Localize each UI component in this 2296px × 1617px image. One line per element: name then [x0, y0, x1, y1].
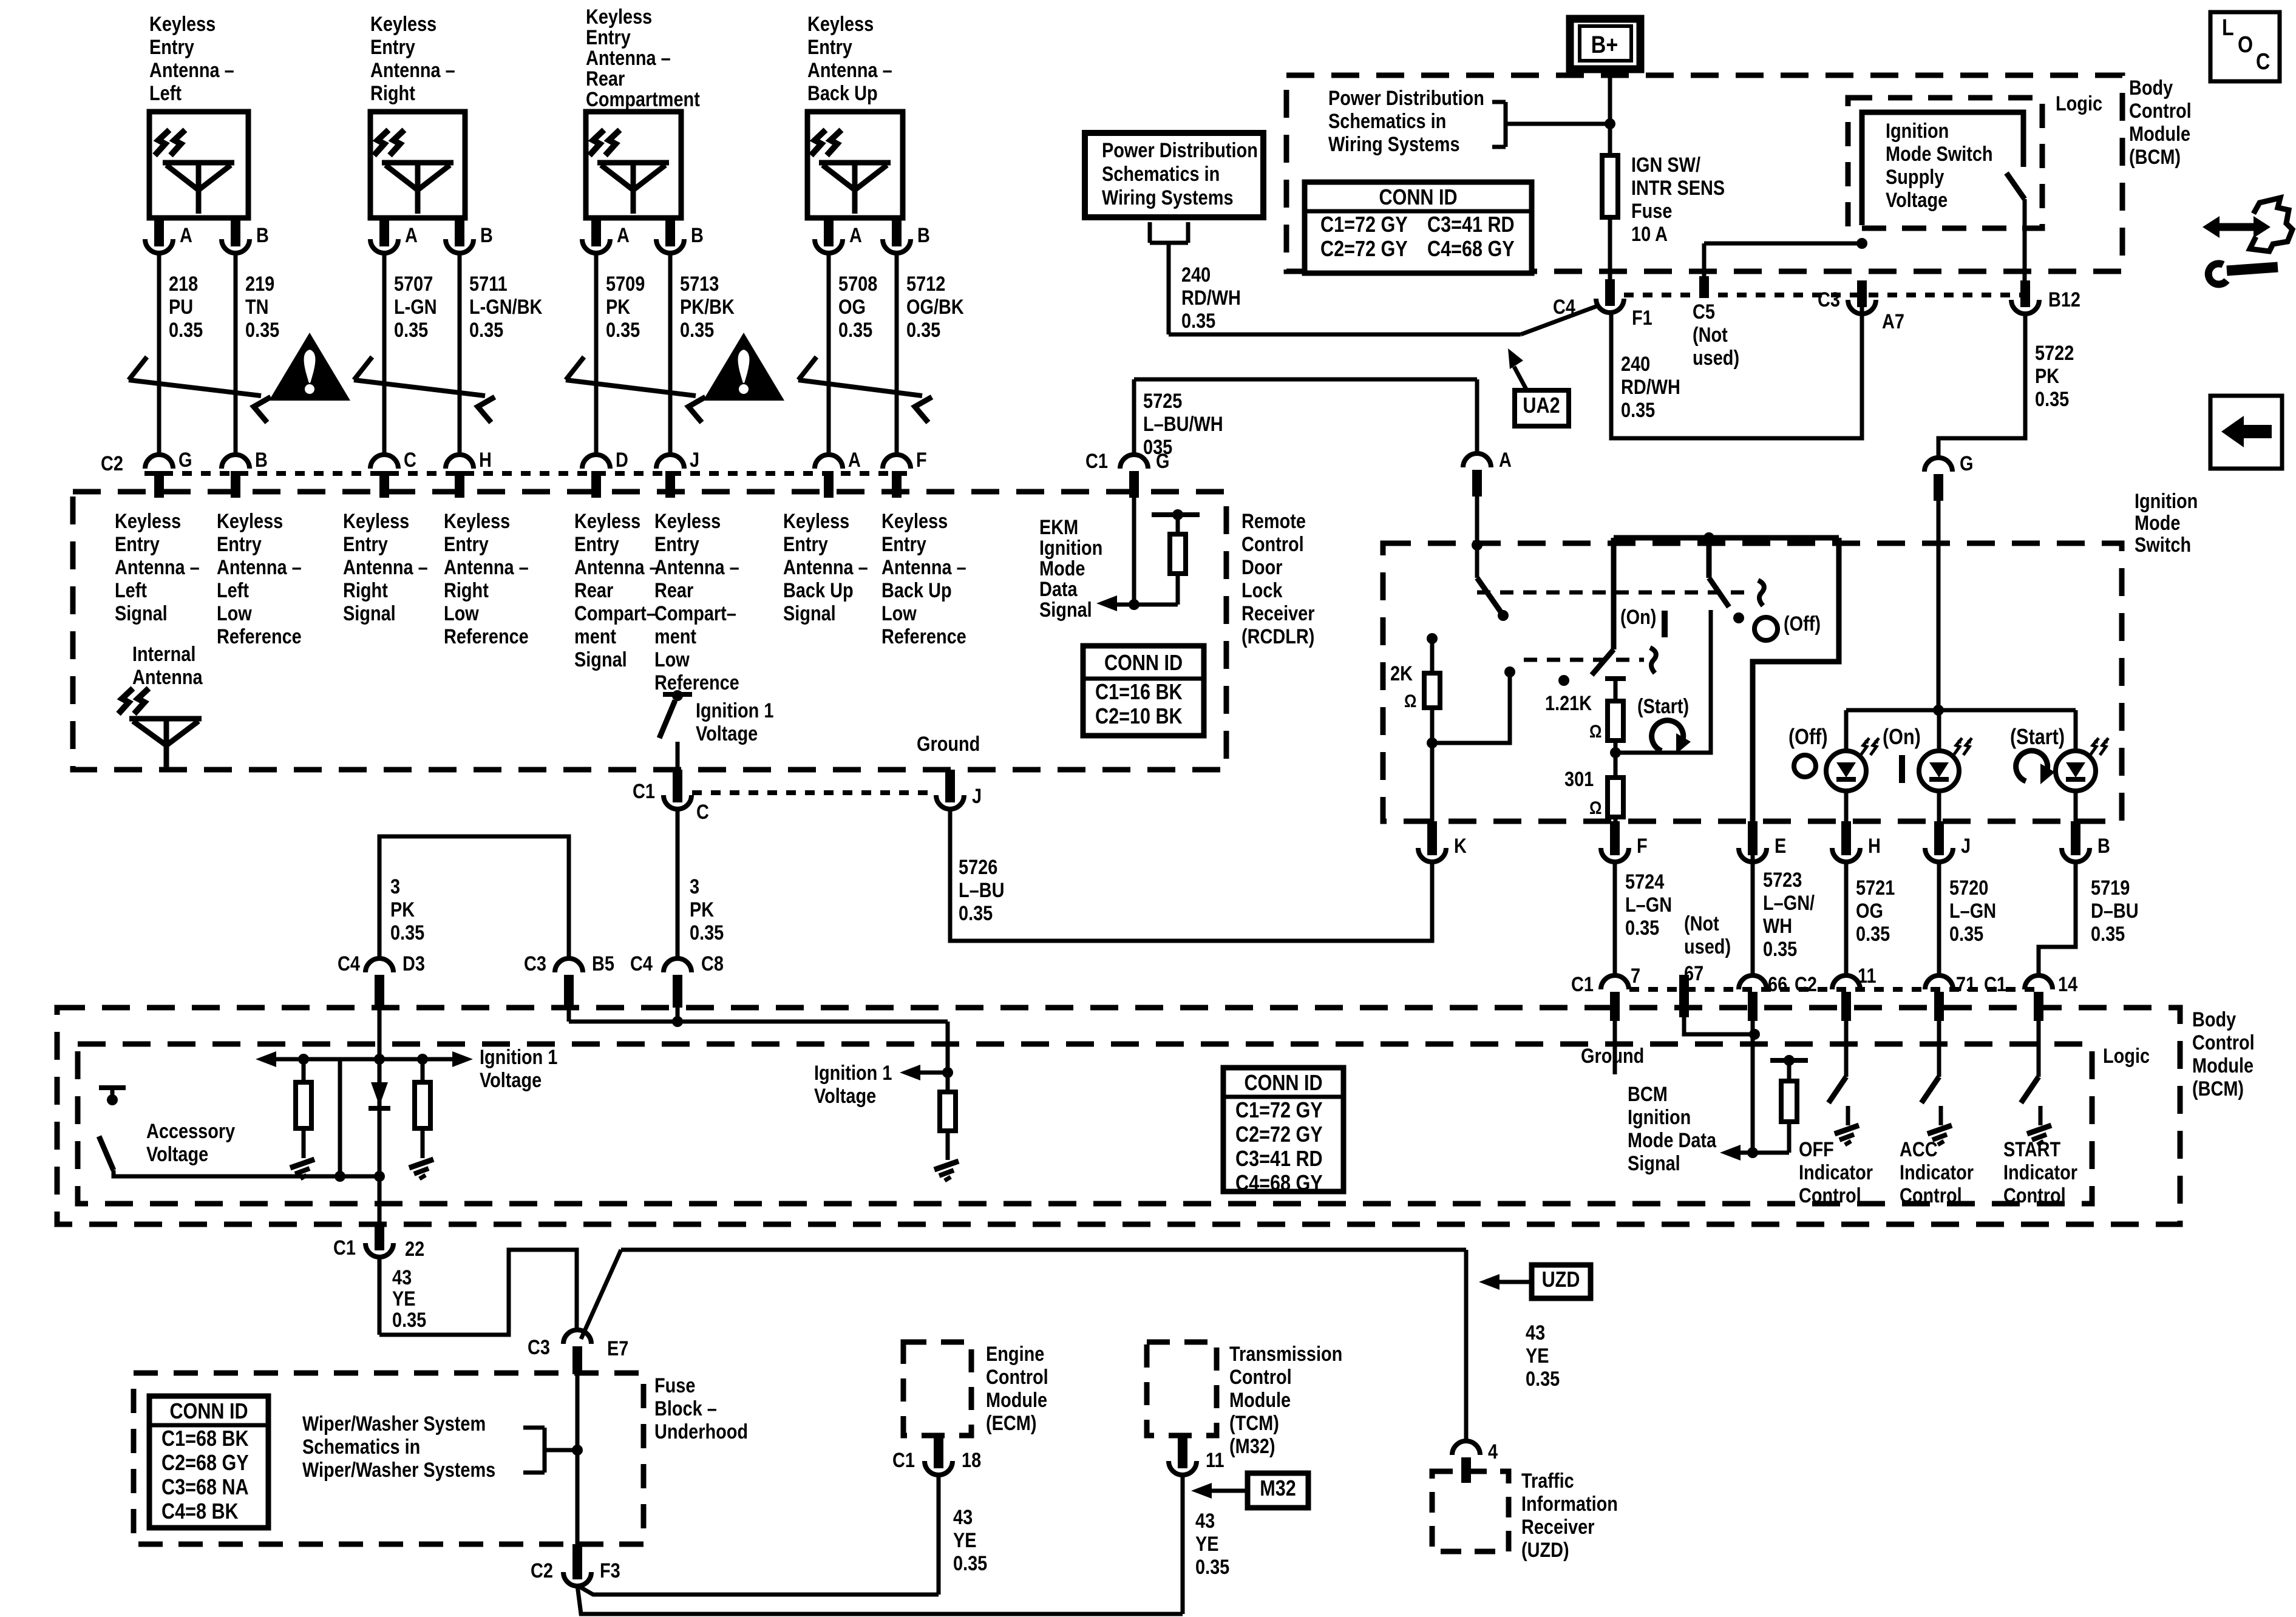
svg-text:A7: A7 [1882, 310, 1904, 333]
ACC indicator control switch [1921, 1077, 1939, 1103]
connector row dotted line (BCM bottom) [1629, 987, 2039, 992]
svg-text:O: O [2238, 32, 2253, 58]
antenna symbol 3 [597, 160, 669, 166]
svg-text:Keyless: Keyless [149, 12, 216, 36]
antenna 1 pin A [154, 218, 164, 246]
svg-text:301: 301 [1564, 767, 1594, 791]
ground (left pull resistor) [290, 1159, 314, 1168]
keyless entry antenna box 2 [370, 112, 465, 218]
svg-text:Mode Switch: Mode Switch [1886, 142, 1993, 166]
wire ACC indicator [1937, 1017, 1941, 1077]
svg-text:C1: C1 [1085, 449, 1108, 473]
svg-text:2K: 2K [1390, 662, 1413, 685]
wire accessory tap [338, 1059, 342, 1176]
twisted pair symbol 2 [354, 380, 485, 396]
wire antenna 1 B down [234, 253, 238, 455]
svg-text:Ignition: Ignition [1039, 536, 1102, 560]
RCDLR connector C2 pin D [582, 455, 610, 469]
svg-text:3: 3 [690, 875, 699, 898]
svg-text:J: J [690, 448, 699, 472]
svg-text:C2=72 GY: C2=72 GY [1320, 237, 1408, 262]
svg-text:Control: Control [1900, 1184, 1962, 1207]
connector pin 71 [1925, 975, 1953, 989]
traffic information receiver dashed box [1432, 1471, 1509, 1551]
svg-text:Antenna: Antenna [132, 665, 203, 689]
top rail (ignition mode switch) [1614, 535, 1839, 541]
svg-text:0.35: 0.35 [1949, 922, 1983, 946]
svg-text:0.35: 0.35 [1621, 398, 1655, 422]
svg-text:Ignition: Ignition [2135, 489, 2198, 513]
svg-text:0.35: 0.35 [2091, 922, 2125, 946]
start rotate arrow (LED) [2016, 751, 2048, 781]
BCM pulldown resistor (ignition 1) [946, 1073, 950, 1092]
svg-text:C1: C1 [333, 1236, 356, 1259]
wire pin F down (5724) [1613, 862, 1617, 977]
wire pin 67 link to 66 [1684, 1017, 1754, 1034]
svg-text:C: C [696, 800, 709, 824]
svg-text:Fuse: Fuse [654, 1374, 695, 1397]
svg-text:C3=41 RD: C3=41 RD [1235, 1147, 1323, 1171]
svg-text:Schematics in: Schematics in [302, 1435, 420, 1459]
svg-text:ment: ment [654, 625, 696, 648]
svg-text:Body: Body [2129, 76, 2173, 100]
svg-text:5722: 5722 [2035, 341, 2074, 365]
UA2 callout arrow [1514, 367, 1527, 390]
ground (START indicator) [2027, 1125, 2051, 1134]
svg-text:Ignition 1: Ignition 1 [480, 1045, 557, 1069]
ground (ACC indicator) [1927, 1125, 1952, 1134]
svg-text:Ignition 1: Ignition 1 [814, 1061, 892, 1085]
svg-text:5719: 5719 [2091, 876, 2130, 900]
svg-text:UZD: UZD [1542, 1268, 1580, 1292]
svg-text:11: 11 [1858, 964, 1877, 988]
svg-text:A: A [405, 223, 418, 247]
ignition mode switch dashed box [1383, 543, 2122, 821]
svg-text:Control: Control [1229, 1365, 1292, 1389]
svg-text:C3: C3 [524, 952, 546, 975]
svg-text:C5: C5 [1693, 300, 1715, 324]
svg-text:5720: 5720 [1949, 876, 1988, 900]
Off position mark (switch) [1754, 617, 1778, 640]
svg-text:Antenna –: Antenna – [881, 555, 966, 579]
switch arm 2 [1592, 649, 1614, 675]
svg-text:BCM: BCM [1628, 1082, 1668, 1106]
svg-text:Antenna –: Antenna – [574, 555, 659, 579]
svg-text:L-GN/BK: L-GN/BK [469, 295, 543, 319]
svg-text:C3: C3 [528, 1335, 550, 1359]
svg-text:Antenna –: Antenna – [343, 555, 428, 579]
OFF indicator control switch [1829, 1077, 1846, 1103]
svg-text:E7: E7 [607, 1337, 628, 1360]
svg-text:A: A [617, 223, 630, 247]
svg-text:Keyless: Keyless [881, 509, 948, 533]
EKM resistor [1176, 517, 1180, 534]
wire START indicator [2037, 1017, 2041, 1077]
logic dashed box (top BCM) [1848, 98, 2042, 228]
wire C5 to A7 [1704, 242, 1862, 246]
connector pin 67 (not used) [1679, 975, 1689, 1017]
svg-text:(Start): (Start) [2010, 725, 2065, 750]
svg-text:5707: 5707 [394, 272, 433, 296]
svg-text:C1=72 GY: C1=72 GY [1320, 213, 1408, 237]
repair reference icon [2250, 198, 2292, 251]
svg-text:Low: Low [881, 602, 917, 625]
ignition mode switch connector pin J [1925, 848, 1953, 862]
wire 3 PK from pin C [676, 809, 680, 959]
svg-text:Keyless: Keyless [807, 12, 874, 36]
svg-text:Transmission: Transmission [1229, 1342, 1342, 1366]
wire pin G to LED rail [1937, 495, 1941, 710]
connector row dotted line (BCM top) [1624, 293, 2025, 297]
wire 5725 drop to ignition mode switch pin A [1475, 379, 1479, 454]
antenna symbol 4 [819, 160, 891, 166]
warning triangle 1 [269, 333, 350, 401]
svg-text:INTR SENS: INTR SENS [1631, 176, 1725, 200]
svg-text:5725: 5725 [1143, 389, 1182, 413]
svg-text:used): used) [1693, 346, 1739, 370]
svg-text:Ignition: Ignition [1628, 1105, 1691, 1129]
svg-text:0.35: 0.35 [2035, 387, 2069, 411]
svg-text:(On): (On) [1620, 605, 1656, 629]
LED rail [1846, 708, 2076, 713]
svg-text:Ignition: Ignition [1886, 119, 1949, 143]
start indicator LED [2074, 710, 2078, 751]
svg-text:A: A [849, 223, 862, 247]
EKM signal arrow [1106, 603, 1178, 607]
svg-text:EKM: EKM [1039, 515, 1078, 539]
svg-text:Remote: Remote [1241, 509, 1306, 533]
on indicator LED [1937, 710, 1941, 751]
wire pin K down [1430, 862, 1435, 941]
svg-text:0.35: 0.35 [169, 318, 203, 342]
svg-text:Switch: Switch [2135, 533, 2191, 557]
svg-text:Keyless: Keyless [654, 509, 721, 533]
START indicator control switch [2021, 1077, 2039, 1103]
wire BCM ignition mode data signal [1751, 1017, 1755, 1153]
svg-text:D: D [616, 448, 628, 472]
svg-text:Control: Control [2192, 1031, 2255, 1054]
svg-text:Right: Right [343, 578, 388, 602]
connector pin B12 [2011, 300, 2039, 314]
svg-text:71: 71 [1956, 972, 1975, 996]
svg-text:Voltage: Voltage [480, 1068, 542, 1092]
svg-text:0.35: 0.35 [690, 921, 724, 944]
wire supply voltage to B12 [2023, 199, 2027, 282]
svg-text:0.35: 0.35 [1625, 916, 1659, 940]
LOC page icon [2210, 12, 2280, 81]
svg-text:D–BU: D–BU [2091, 899, 2139, 923]
RCDLR CONN ID table [1083, 646, 1204, 736]
svg-text:START: START [2003, 1137, 2060, 1161]
wiper/washer reference bracket [523, 1426, 545, 1430]
svg-text:43: 43 [1195, 1509, 1215, 1533]
svg-text:Entry: Entry [343, 532, 388, 556]
svg-text:0.35: 0.35 [606, 318, 640, 342]
supply voltage switch arm [2006, 173, 2025, 199]
wire between resistors [1614, 741, 1618, 778]
svg-text:5708: 5708 [838, 272, 877, 296]
svg-text:L–BU: L–BU [959, 878, 1004, 902]
svg-text:Signal: Signal [574, 648, 627, 671]
svg-text:(M32): (M32) [1229, 1434, 1275, 1458]
svg-text:0.35: 0.35 [394, 318, 428, 342]
svg-text:Back Up: Back Up [807, 81, 878, 105]
keyless entry antenna box 4 [807, 112, 903, 218]
svg-text:Signal: Signal [783, 602, 836, 625]
power distribution reference bracket [1492, 100, 1506, 104]
2K resistor contact [1427, 633, 1438, 644]
svg-text:0.35: 0.35 [1195, 1555, 1229, 1579]
svg-text:Entry: Entry [444, 532, 489, 556]
svg-text:F3: F3 [600, 1559, 620, 1582]
UZD callout arrow [1499, 1280, 1532, 1284]
wire antenna 4 A down [827, 253, 831, 455]
svg-text:Control: Control [1799, 1184, 1861, 1207]
svg-text:(ECM): (ECM) [986, 1411, 1036, 1435]
svg-text:240: 240 [1621, 352, 1650, 376]
svg-text:OG/BK: OG/BK [906, 295, 964, 319]
svg-text:Keyless: Keyless [115, 509, 181, 533]
twisted pair symbol 4 [798, 380, 922, 396]
svg-text:used): used) [1684, 935, 1731, 958]
svg-text:Antenna –: Antenna – [149, 58, 234, 82]
wire F1 to A7 loop [1611, 282, 1862, 438]
switch arm 3 (off) [1707, 538, 1712, 578]
svg-text:PK: PK [2035, 364, 2059, 388]
svg-text:Block –: Block – [654, 1397, 717, 1420]
svg-text:Keyless: Keyless [783, 509, 849, 533]
svg-text:(BCM): (BCM) [2129, 145, 2181, 169]
svg-text:Low: Low [444, 602, 479, 625]
svg-text:G: G [178, 448, 192, 472]
connector C3 pin A7 [1848, 300, 1876, 314]
svg-text:Left: Left [149, 81, 182, 105]
svg-text:Compart–: Compart– [654, 602, 736, 625]
body control module (BCM) bottom dashed box [57, 1008, 2180, 1224]
ignition mode switch connector pin K [1418, 848, 1446, 862]
RCDLR connector C2 pin J [656, 455, 684, 469]
RCDLR connector C2 pin C [370, 455, 398, 469]
svg-text:J: J [972, 784, 982, 808]
svg-text:0.35: 0.35 [1181, 309, 1215, 333]
svg-text:L–BU/WH: L–BU/WH [1143, 412, 1223, 436]
svg-text:Door: Door [1241, 555, 1282, 579]
connector pin 66 [1739, 975, 1767, 989]
wire E7 to F3 [576, 1375, 580, 1555]
svg-text:C2=72 GY: C2=72 GY [1235, 1123, 1323, 1147]
wire accessory voltage [114, 1170, 379, 1176]
svg-text:Antenna –: Antenna – [586, 46, 671, 70]
svg-text:Voltage: Voltage [814, 1084, 876, 1108]
wire 43 YE (TCM) [1181, 1475, 1185, 1614]
wire pin B down (5719) [2039, 862, 2076, 977]
wire B+ to fuse [1608, 67, 1612, 155]
wire 2K to pin K [1430, 708, 1435, 825]
svg-text:0.35: 0.35 [1856, 922, 1890, 946]
svg-text:H: H [1868, 834, 1881, 858]
svg-text:Rear: Rear [574, 578, 613, 602]
svg-text:Indicator: Indicator [1799, 1161, 1873, 1184]
svg-text:Control: Control [2129, 99, 2192, 123]
diode (BCM main feed) [371, 1082, 388, 1106]
warning triangle 2 [703, 333, 784, 401]
off indicator LED [1844, 710, 1849, 751]
svg-text:Reference: Reference [217, 625, 302, 648]
start rotate arrow (switch) [1652, 720, 1683, 751]
svg-text:YE: YE [1526, 1344, 1549, 1368]
1.21K resistor tap [1605, 676, 1626, 681]
ignition mode switch connector pin H [1832, 848, 1860, 862]
svg-text:C1: C1 [633, 779, 655, 803]
svg-text:Antenna –: Antenna – [115, 555, 200, 579]
svg-text:Keyless: Keyless [586, 5, 652, 29]
svg-text:OG: OG [1856, 899, 1883, 923]
wire OFF indicator [1844, 1017, 1849, 1077]
wire 43 YE from pin 22 [378, 1257, 382, 1335]
M32 callout box [1248, 1473, 1308, 1508]
keyless entry antenna box 3 [586, 112, 681, 218]
svg-text:Signal: Signal [343, 602, 396, 625]
svg-text:Underhood: Underhood [654, 1420, 748, 1443]
svg-text:L–GN: L–GN [1949, 899, 1996, 923]
wire pin E down (5723) [1751, 839, 1755, 977]
svg-text:H: H [479, 448, 492, 472]
switch linkage dashed line 2 [1524, 658, 1644, 662]
svg-text:5711: 5711 [469, 272, 508, 296]
svg-text:YE: YE [953, 1528, 977, 1552]
svg-text:Power Distribution: Power Distribution [1328, 86, 1484, 110]
svg-text:(Not: (Not [1693, 323, 1728, 347]
svg-text:Schematics in: Schematics in [1102, 162, 1220, 186]
ignition mode switch connector pin A [1463, 453, 1491, 467]
svg-text:0.35: 0.35 [838, 318, 872, 342]
wire antenna 3 B down [668, 253, 673, 455]
antenna 2 pin B [455, 218, 464, 246]
svg-text:Antenna –: Antenna – [807, 58, 892, 82]
ignition 1 voltage drop [946, 1022, 950, 1073]
wire 301 to pin F [1614, 817, 1618, 825]
svg-text:43: 43 [392, 1266, 412, 1289]
svg-text:5726: 5726 [959, 855, 997, 879]
antenna 4 pin B [892, 218, 902, 246]
wire antenna 3 A down [594, 253, 599, 455]
svg-text:Wiper/Washer System: Wiper/Washer System [302, 1412, 486, 1436]
svg-text:Signal: Signal [1628, 1151, 1680, 1175]
svg-text:219: 219 [245, 272, 274, 296]
svg-text:UA2: UA2 [1523, 394, 1560, 418]
svg-text:CONN ID: CONN ID [169, 1400, 248, 1424]
svg-text:Keyless: Keyless [217, 509, 283, 533]
wire rail to pin E [1753, 538, 1839, 825]
ignition mode switch connector pin B [2062, 848, 2090, 862]
svg-text:Supply: Supply [1886, 165, 1944, 189]
fuse block underhood dashed box [134, 1373, 644, 1544]
antenna symbol 1 [163, 160, 234, 166]
svg-text:C4=68 GY: C4=68 GY [1427, 237, 1515, 262]
logic dashed box (bottom BCM) [78, 1044, 2092, 1204]
svg-text:240: 240 [1181, 263, 1211, 286]
svg-text:0.35: 0.35 [906, 318, 940, 342]
svg-text:(BCM): (BCM) [2192, 1077, 2244, 1100]
connector pin J (RCDLR ground) [936, 795, 964, 809]
switch arm 1 (from pin A) [1475, 545, 1479, 578]
svg-text:218: 218 [169, 272, 198, 296]
svg-text:(Off): (Off) [1788, 725, 1828, 750]
internal antenna symbol [129, 716, 202, 722]
svg-text:Ground: Ground [1581, 1044, 1644, 1068]
svg-text:14: 14 [2058, 972, 2078, 996]
svg-text:F: F [1637, 834, 1648, 858]
svg-text:Schematics in: Schematics in [1328, 109, 1446, 133]
svg-text:Antenna –: Antenna – [217, 555, 302, 579]
ground (BCM ignition 1 resistor) [934, 1161, 959, 1170]
svg-text:Entry: Entry [807, 35, 852, 59]
svg-text:0.35: 0.35 [390, 921, 424, 944]
wire antenna 4 B down [895, 253, 899, 455]
wire 240 RD/WH [1167, 243, 1171, 334]
body control module top dashed box [1286, 75, 2122, 271]
svg-text:Mode: Mode [2135, 511, 2180, 535]
svg-text:C1=16 BK: C1=16 BK [1095, 680, 1183, 705]
antenna 3 pin A [591, 218, 601, 246]
svg-text:Antenna –: Antenna – [370, 58, 455, 82]
svg-text:A: A [180, 223, 192, 247]
wire antenna 1 A down [157, 253, 161, 455]
svg-text:Signal: Signal [1039, 598, 1092, 622]
svg-text:C4: C4 [630, 952, 653, 975]
wire 43 YE to TCM [577, 1585, 1183, 1614]
svg-text:Entry: Entry [783, 532, 828, 556]
svg-text:TN: TN [245, 295, 269, 319]
svg-text:Low: Low [654, 648, 690, 671]
EKM data signal wire [1132, 494, 1136, 605]
svg-text:Body: Body [2192, 1008, 2237, 1031]
svg-text:ment: ment [574, 625, 616, 648]
back arrow icon [2210, 396, 2282, 469]
wire antenna 2 B down [458, 253, 462, 455]
svg-text:Voltage: Voltage [146, 1142, 208, 1166]
wire 43 YE to ECM [577, 1585, 939, 1595]
antenna 1 pin B [231, 218, 240, 246]
wire 3 PK loop (D3 to B5) [379, 836, 569, 959]
svg-text:Mode: Mode [1039, 557, 1085, 580]
svg-text:C8: C8 [701, 952, 724, 975]
svg-text:Antenna –: Antenna – [783, 555, 868, 579]
svg-text:OG: OG [838, 295, 866, 319]
svg-text:Ω: Ω [1404, 691, 1416, 711]
svg-text:B+: B+ [1591, 30, 1618, 58]
svg-text:0.35: 0.35 [680, 318, 714, 342]
svg-text:B: B [691, 223, 704, 247]
svg-text:5723: 5723 [1763, 868, 1802, 892]
svg-text:Keyless: Keyless [444, 509, 510, 533]
svg-text:Compartment: Compartment [586, 87, 700, 111]
svg-text:Wiring Systems: Wiring Systems [1102, 186, 1234, 209]
RCDLR connector C2 pin G [145, 455, 173, 469]
svg-text:YE: YE [1195, 1532, 1219, 1556]
svg-text:C3=41 RD: C3=41 RD [1427, 213, 1515, 237]
wire C8 stub [676, 1002, 680, 1022]
RCDLR connector C2 pin F [883, 455, 911, 469]
ignition 1 voltage arrow (BCM) [907, 1071, 948, 1075]
power distribution bracket [1148, 222, 1152, 243]
right pull resistor [421, 1059, 425, 1082]
svg-text:B: B [256, 223, 269, 247]
svg-text:B: B [255, 448, 268, 472]
wire 43 YE staircase to fuse block [379, 1250, 577, 1335]
EKM tap bar [1152, 512, 1200, 517]
svg-text:Mode Data: Mode Data [1628, 1128, 1717, 1152]
